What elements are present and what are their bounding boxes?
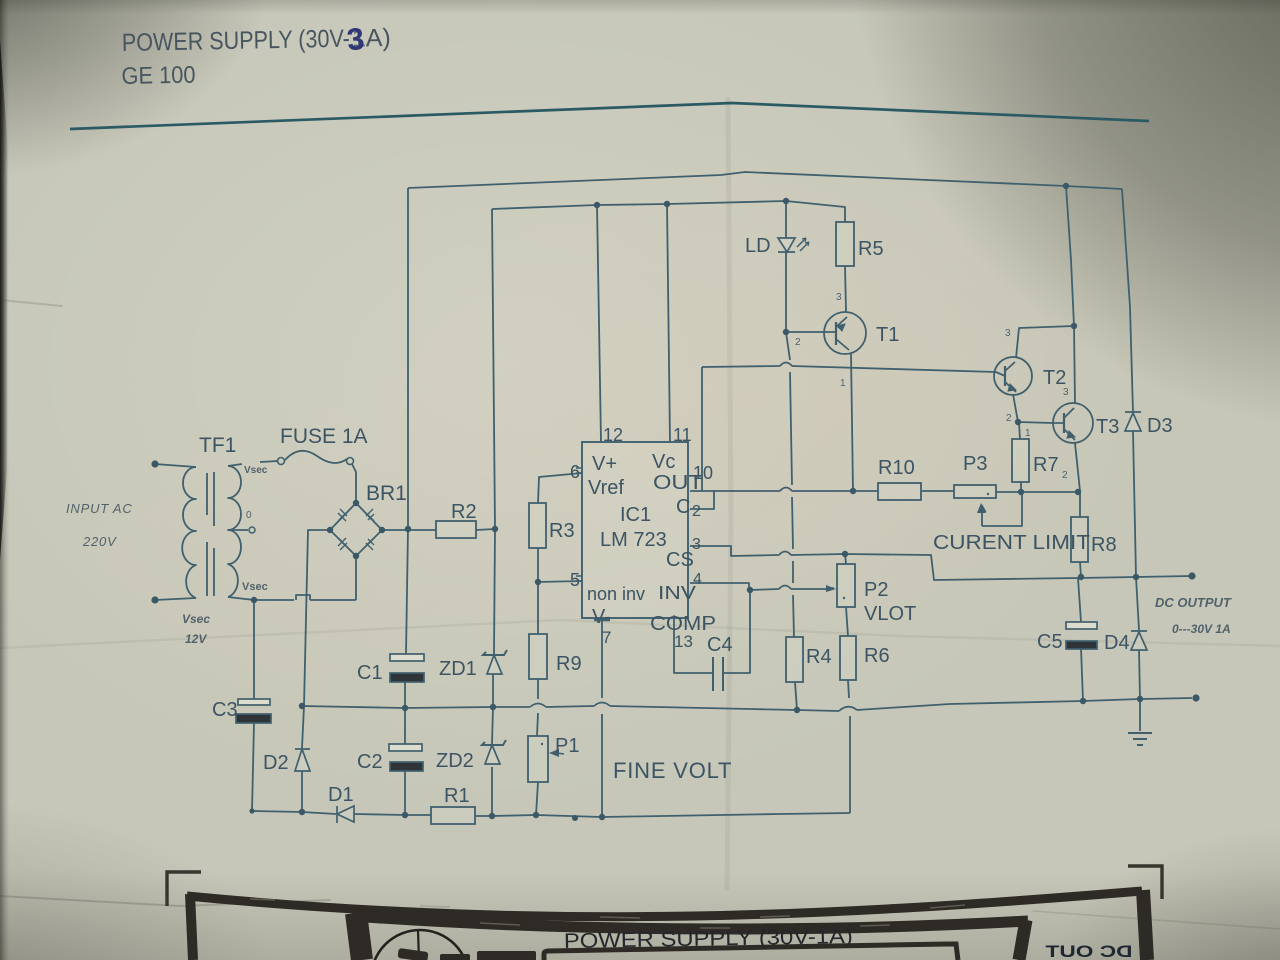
svg-text:1: 1: [1025, 428, 1031, 439]
svg-text:ZD1: ZD1: [439, 658, 477, 680]
svg-text:C2: C2: [357, 751, 383, 773]
svg-text:CS: CS: [666, 549, 694, 571]
svg-text:POWER SUPPLY (30V-: POWER SUPPLY (30V-: [122, 25, 350, 57]
svg-text:3: 3: [1063, 387, 1069, 398]
svg-text:V-: V-: [592, 606, 611, 628]
svg-text:D4: D4: [1104, 632, 1130, 654]
svg-text:13: 13: [674, 632, 693, 651]
svg-text:R1: R1: [444, 785, 470, 807]
svg-text:6: 6: [570, 462, 580, 482]
svg-text:T2: T2: [1043, 367, 1066, 389]
svg-text:220V: 220V: [82, 534, 117, 549]
svg-text:VLOT: VLOT: [864, 603, 916, 625]
svg-text:D2: D2: [263, 752, 289, 774]
svg-text:FINE VOLT: FINE VOLT: [613, 758, 732, 783]
svg-text:C5: C5: [1037, 631, 1063, 653]
svg-text:INV: INV: [658, 583, 696, 603]
svg-text:0---30V 1A: 0---30V 1A: [1172, 622, 1231, 636]
svg-text:C3: C3: [212, 699, 238, 721]
svg-text:INPUT AC: INPUT AC: [66, 501, 133, 516]
svg-text:C4: C4: [707, 634, 733, 656]
svg-text:2: 2: [1062, 470, 1068, 481]
svg-text:R3: R3: [549, 520, 575, 542]
svg-text:7: 7: [602, 628, 611, 647]
svg-text:11: 11: [673, 425, 692, 445]
svg-text:12V: 12V: [185, 632, 207, 646]
svg-text:Vsec: Vsec: [182, 612, 210, 626]
svg-text:CURENT LIMIT: CURENT LIMIT: [933, 532, 1090, 554]
svg-text:A): A): [366, 24, 392, 52]
svg-text:P1: P1: [555, 735, 579, 757]
svg-text:2: 2: [795, 337, 801, 348]
svg-text:V+: V+: [592, 453, 617, 475]
svg-text:OUT: OUT: [653, 472, 703, 494]
svg-text:R7: R7: [1033, 454, 1059, 476]
svg-text:FUSE 1A: FUSE 1A: [280, 425, 368, 448]
svg-text:R10: R10: [878, 457, 915, 479]
svg-text:DC OUTPUT: DC OUTPUT: [1155, 595, 1232, 610]
svg-text:R5: R5: [858, 238, 884, 260]
svg-text:5: 5: [570, 570, 580, 590]
svg-text:non inv: non inv: [587, 584, 645, 604]
svg-text:TF1: TF1: [199, 434, 236, 457]
svg-text:LD: LD: [745, 235, 771, 257]
svg-text:R4: R4: [806, 646, 832, 668]
svg-text:ZD2: ZD2: [436, 750, 474, 772]
svg-text:2: 2: [1006, 413, 1012, 424]
svg-text:P2: P2: [864, 579, 888, 601]
svg-text:D3: D3: [1147, 415, 1173, 437]
svg-text:DC OUT: DC OUT: [1045, 942, 1133, 960]
svg-text:T3: T3: [1096, 416, 1119, 438]
svg-text:P3: P3: [963, 453, 987, 475]
svg-text:IC1: IC1: [620, 504, 651, 526]
svg-text:LM 723: LM 723: [600, 529, 667, 551]
svg-text:GE 100: GE 100: [121, 62, 196, 90]
svg-text:Vsec: Vsec: [242, 581, 268, 593]
svg-text:D1: D1: [328, 784, 354, 806]
svg-text:Vref: Vref: [588, 477, 624, 499]
svg-text:3: 3: [836, 292, 842, 303]
svg-text:2: 2: [692, 503, 701, 520]
svg-text:BR1: BR1: [366, 482, 407, 505]
svg-text:1: 1: [840, 378, 846, 389]
svg-text:R6: R6: [864, 645, 890, 667]
svg-text:12: 12: [603, 425, 623, 445]
svg-text:R2: R2: [451, 501, 477, 523]
svg-text:R8: R8: [1091, 534, 1117, 556]
svg-text:C1: C1: [357, 662, 383, 684]
svg-text:R9: R9: [556, 653, 582, 675]
svg-text:0: 0: [246, 510, 252, 521]
svg-text:Vsec: Vsec: [244, 465, 268, 476]
svg-text:T1: T1: [876, 324, 899, 346]
svg-text:Vc: Vc: [652, 451, 675, 473]
svg-text:C: C: [676, 496, 690, 518]
svg-text:3: 3: [1005, 328, 1011, 339]
